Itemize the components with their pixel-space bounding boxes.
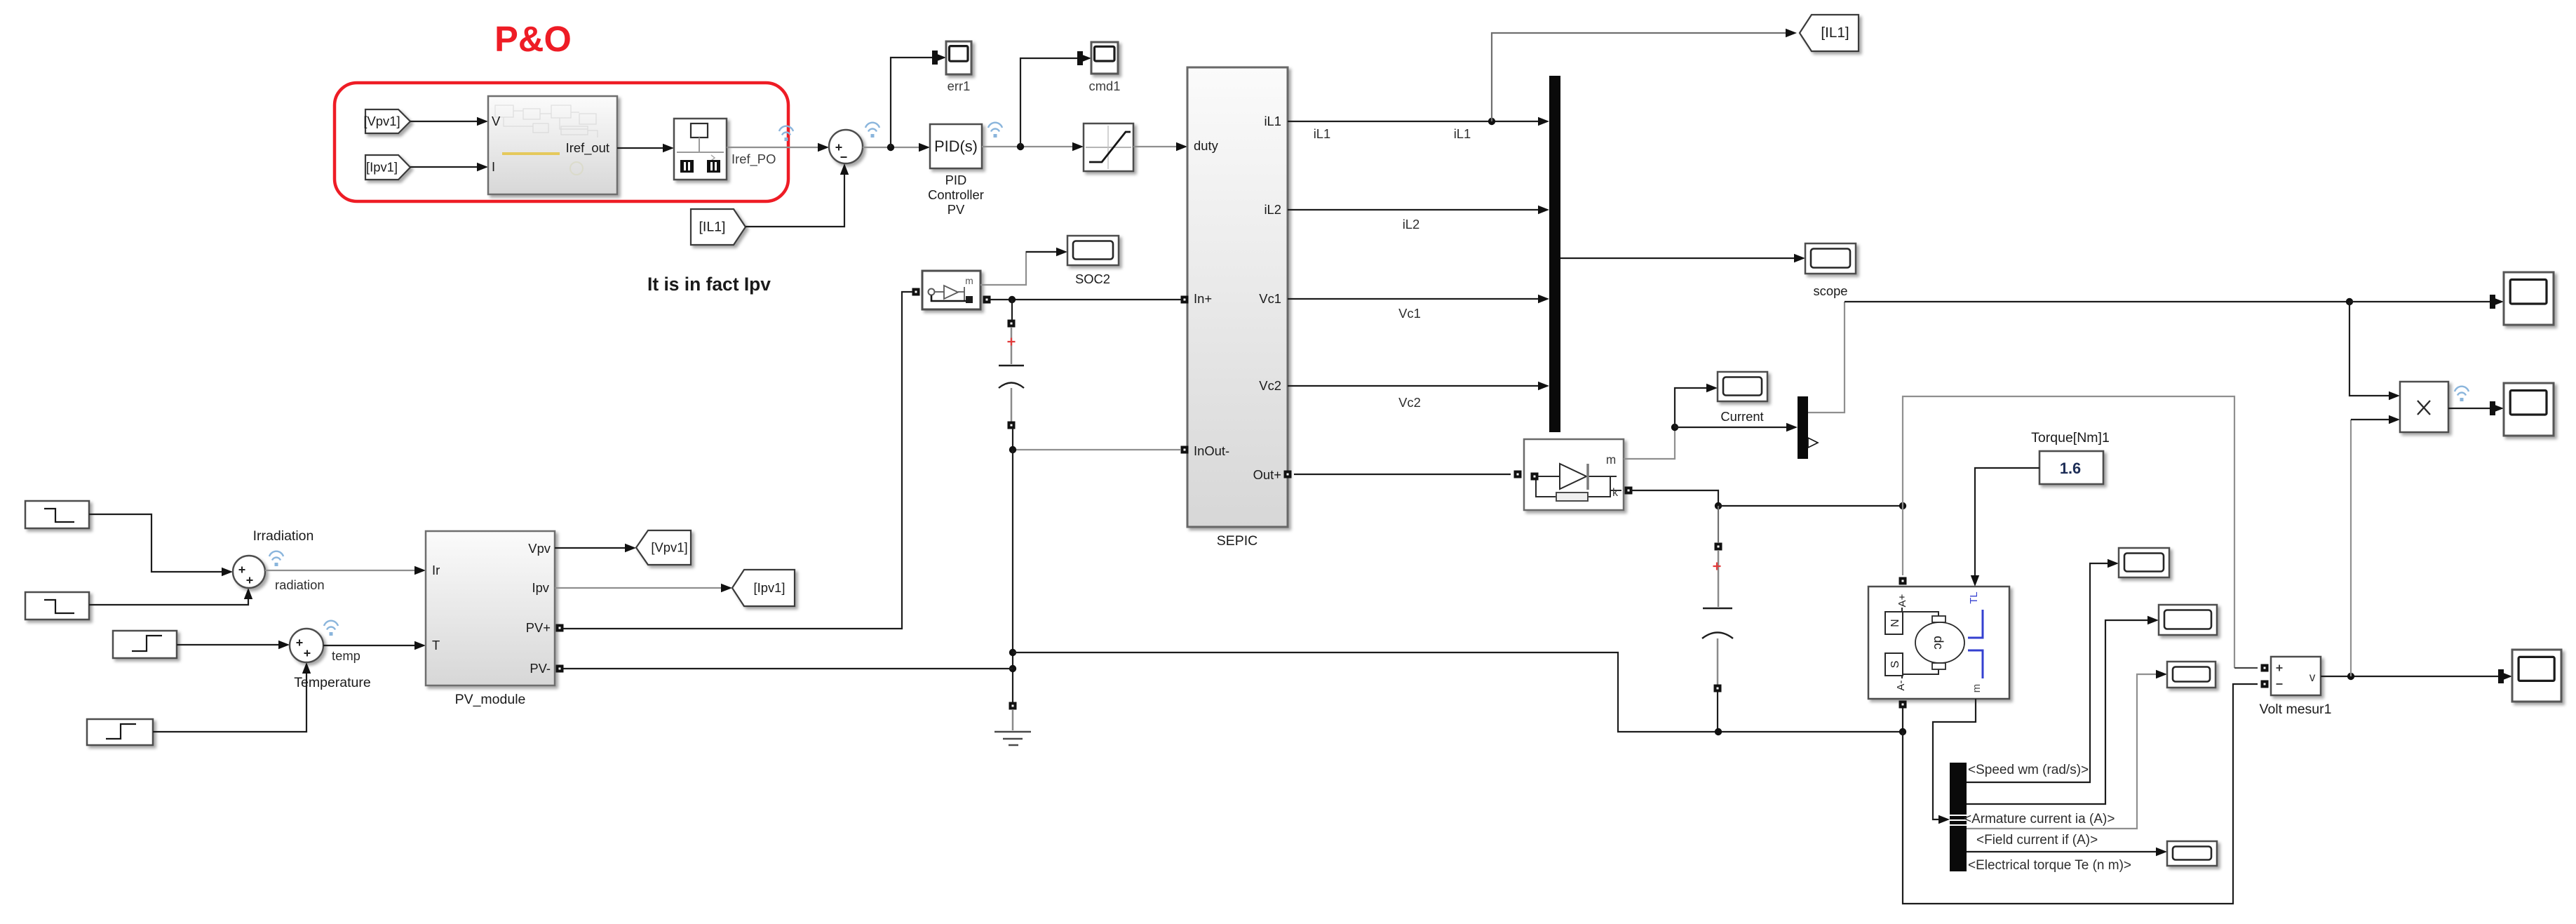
text label SEPIC: [1217, 533, 1258, 549]
svg-text:T: T: [432, 638, 440, 652]
block current measurement (battery meter): [922, 271, 980, 309]
junction PV- joins negative rail: [1009, 665, 1016, 672]
block DC machine: [1868, 587, 2009, 699]
text bus label Speed: [1968, 763, 2089, 777]
junction current to scope and product: [2346, 298, 2353, 305]
svg-text:[Vpv1]: [Vpv1]: [363, 114, 400, 128]
wire PV+ to measurement block: [563, 292, 912, 629]
svg-text:Iref_PO: Iref_PO: [731, 152, 776, 167]
text label SOC2: [1075, 272, 1110, 286]
svg-text:Controller: Controller: [928, 187, 984, 202]
wire constant to TL input: [1971, 468, 2039, 587]
wire step4 to temp sum: [153, 662, 311, 732]
svg-text:[IL1]: [IL1]: [1821, 25, 1849, 41]
svg-text:[IL1]: [IL1]: [699, 220, 726, 235]
wire k node to DC machine A+ node: [1718, 505, 1903, 507]
step block Step (irradiation 2): [25, 592, 89, 620]
wire voltage to product input 2: [2351, 415, 2400, 676]
svg-text:P&O: P&O: [494, 19, 572, 59]
svg-text:TL: TL: [1969, 591, 1980, 603]
wire saturation to SEPIC duty: [1133, 142, 1187, 151]
svg-text:err1: err1: [948, 79, 971, 93]
svg-text:cmd1: cmd1: [1089, 79, 1121, 93]
text label Irradiation: [253, 528, 314, 544]
wire bus Speed to display1: [1967, 559, 2119, 782]
wire node to Current display: [1675, 384, 1718, 427]
block diode with snubber: [1524, 439, 1624, 510]
wire MPPT Iref_out to Iref_PO block: [617, 144, 674, 152]
svg-text:Vpv: Vpv: [528, 541, 551, 556]
svg-text:duty: duty: [1194, 138, 1219, 153]
svg-text:Ir: Ir: [432, 563, 440, 577]
svg-text:v: v: [2309, 670, 2316, 684]
text label Current: [1720, 409, 1763, 424]
product block x: [2400, 382, 2448, 432]
sum block temp: [290, 629, 323, 662]
svg-text:<Electrical torque Te (n m)>: <Electrical torque Te (n m)>: [1968, 858, 2131, 873]
ground symbol: [994, 709, 1031, 745]
scope cmd1: [1089, 42, 1121, 93]
text bus label Armature current: [1964, 812, 2115, 826]
port A- of DC machine: [1899, 701, 1907, 709]
svg-text:iL1: iL1: [1264, 114, 1281, 128]
junction DC machine A+ node: [1899, 502, 1906, 509]
port PV- of PV_module: [556, 665, 564, 673]
svg-text:Out+: Out+: [1253, 467, 1281, 482]
svg-text:In+: In+: [1194, 291, 1212, 306]
signal logging badge on radiation: [269, 551, 283, 566]
polarity mark + of C2: [1713, 563, 1721, 570]
port Out+ of SEPIC: [1284, 471, 1292, 478]
svg-text:V: V: [492, 114, 501, 128]
wire negative rail vertical: [1012, 450, 1013, 702]
svg-text:1.6: 1.6: [2060, 460, 2081, 477]
wire SEPIC iL1 to mux: [1288, 117, 1549, 126]
scope block top right: [2504, 272, 2554, 325]
wire A+ node to machine: [1902, 506, 1903, 575]
svg-text:It is in fact Ipv: It is in fact Ipv: [647, 274, 771, 295]
svg-text:Current: Current: [1720, 409, 1763, 424]
text label Iref_PO: [731, 152, 776, 167]
signal logging badge on sum1 output: [865, 123, 879, 138]
junction on sum1 output: [887, 144, 894, 151]
block saturation: [1084, 123, 1133, 171]
text label radiation: [275, 577, 325, 592]
wire junction to cmd1 scope: [1020, 51, 1091, 147]
bus selector block: [1950, 763, 1967, 871]
svg-text:iL1: iL1: [1314, 126, 1331, 141]
wire PID to saturation: [982, 142, 1084, 151]
capacitor C1 (input cap): [999, 320, 1024, 429]
wire Vpv to goto [Vpv1]: [555, 544, 636, 552]
text wire label Vc1: [1398, 306, 1421, 321]
svg-text:I: I: [492, 159, 495, 174]
display Current: [1718, 372, 1767, 401]
wire machine m to bus selector: [1933, 699, 1976, 824]
port inner anode: [1531, 473, 1539, 481]
svg-text:Torque[Nm]1: Torque[Nm]1: [2031, 430, 2110, 446]
wire bus Field to display3: [1967, 670, 2167, 829]
junction on In+ wire: [1009, 296, 1016, 303]
wire temp sum to PV T: [323, 641, 426, 650]
wire Iref_PO to sum1: [727, 143, 829, 152]
port In+ of SEPIC: [1181, 296, 1189, 304]
wire bottom rail: [1013, 652, 1903, 732]
from tag [IL1]: [691, 209, 746, 245]
wire SEPIC iL2 to mux: [1288, 206, 1549, 214]
display block scope: [1805, 243, 1856, 274]
svg-text:temp: temp: [332, 648, 360, 663]
svg-text:dc: dc: [1931, 636, 1946, 649]
wire junction to err1 scope: [891, 51, 946, 147]
svg-text:PV-: PV-: [530, 661, 551, 676]
signal logging badge on PID output: [988, 123, 1002, 138]
text label temp: [332, 648, 360, 663]
junction on PID output: [1017, 143, 1024, 150]
junction DC machine A- node: [1899, 728, 1906, 735]
step block Step (temperature 2): [87, 719, 153, 745]
svg-text:<Field current if (A)>: <Field current if (A)>: [1976, 833, 2098, 848]
svg-text:m: m: [1971, 684, 1983, 692]
scope block bottom right: [2512, 650, 2561, 702]
wire junction down to product input 1: [2349, 302, 2400, 400]
port minus of Volt mesur1: [2261, 681, 2269, 688]
wire SEPIC Vc2 to mux: [1288, 382, 1549, 390]
svg-text:Vc2: Vc2: [1398, 395, 1421, 410]
junction C2 on bottom rail: [1715, 728, 1722, 735]
mux block small (current): [1798, 396, 1818, 459]
sum block (Iref - IL1): [829, 130, 863, 163]
subsystem PV_module block: [426, 531, 555, 685]
svg-text:iL2: iL2: [1403, 217, 1420, 232]
junction negative rail to bottom rail: [1009, 649, 1016, 656]
wire mux2 output to power line: [1808, 302, 1845, 413]
wire voltmeter minus path: [1903, 684, 2258, 904]
wire InOut- node to SEPIC: [1009, 446, 1181, 453]
wire Ipv to goto [Ipv1]: [555, 584, 732, 592]
scope err1: [946, 41, 971, 93]
wire product to scope5: [2448, 401, 2504, 415]
display block speed: [2119, 548, 2169, 577]
svg-text:Iref_out: Iref_out: [566, 140, 609, 156]
subsystem SEPIC block: [1187, 67, 1288, 527]
text label scope: [1813, 283, 1847, 298]
svg-text:iL1: iL1: [1454, 126, 1471, 141]
svg-text:A-: A-: [1896, 681, 1907, 691]
wire step3 to temp sum: [177, 641, 290, 649]
wire SEPIC Vc1 to mux: [1288, 295, 1549, 303]
svg-text:Volt mesur1: Volt mesur1: [2260, 702, 2332, 717]
wire diode m to current node: [1624, 427, 1675, 459]
text bus label Electrical torque: [1968, 858, 2131, 873]
svg-text:m: m: [965, 276, 973, 286]
svg-text:S: S: [1889, 661, 1901, 669]
wire bus Torque to display4: [1967, 848, 2167, 856]
svg-text:<Armature current ia (A)>: <Armature current ia (A)>: [1964, 812, 2115, 826]
wire bus Armature to display2: [1967, 616, 2159, 804]
svg-text:[Ipv1]: [Ipv1]: [366, 160, 398, 175]
display block armature current: [2159, 605, 2217, 635]
sum block radiation: [233, 556, 265, 588]
text label Volt mesur1: [2260, 702, 2332, 717]
goto tag [Vpv1]: [636, 530, 691, 565]
svg-text:scope: scope: [1813, 283, 1847, 298]
block Volt mesur1 (voltage measurement): [2271, 657, 2321, 695]
wire step2 to radiation sum: [89, 588, 252, 605]
svg-text:SEPIC: SEPIC: [1217, 533, 1258, 549]
signal logging badge on Iref_PO: [779, 126, 793, 141]
wire voltmeter plus final: [2234, 667, 2258, 669]
port InOut- of SEPIC: [1181, 446, 1189, 454]
text label Torque[Nm]1: [2031, 430, 2110, 446]
port anode of diode: [1514, 471, 1522, 478]
step block Step (temperature 1): [113, 631, 177, 658]
wire SEPIC Out+ to diode: [1294, 474, 1511, 475]
port plus of Volt mesur1: [2261, 664, 2269, 672]
svg-text:PID(s): PID(s): [934, 138, 978, 155]
wire iL1 junction to goto [IL1]: [1492, 29, 1797, 121]
junction current measurement node: [1671, 424, 1678, 431]
svg-text:PV: PV: [948, 202, 965, 217]
svg-text:PID: PID: [945, 173, 967, 187]
svg-text:SOC2: SOC2: [1075, 272, 1110, 286]
goto tag [IL1]: [1800, 15, 1859, 51]
wire radiation sum to PV Ir: [265, 566, 426, 575]
signal logging badge on product: [2455, 387, 2469, 401]
wire C1 bottom to InOut- node: [1012, 429, 1013, 450]
display SOC2: [1067, 236, 1119, 265]
wire A- to rail junction: [1902, 708, 1903, 732]
wire [Vpv1] to MPPT V input: [410, 117, 488, 126]
wire PV- to negative rail: [563, 668, 1013, 669]
wire diode k to capacitor node: [1631, 490, 1718, 502]
wire voltmeter plus path: [1903, 396, 2234, 668]
svg-text:k: k: [1612, 486, 1619, 499]
wire [IL1] to sum1 minus input: [746, 163, 849, 227]
display block electrical torque: [2167, 841, 2217, 866]
svg-text:N: N: [1889, 619, 1901, 627]
text wire label iL2: [1403, 217, 1420, 232]
wire current signal long horizontal: [1845, 301, 2346, 302]
svg-text:iL2: iL2: [1264, 202, 1281, 217]
wire step1 to radiation sum: [89, 514, 233, 576]
svg-text:PV+: PV+: [526, 620, 551, 635]
wire Volt mesur1 output: [2321, 669, 2512, 683]
scope block mid right: [2504, 383, 2554, 436]
constant block Torque 1.6: [2039, 451, 2103, 484]
block PID Controller PV: [928, 124, 984, 217]
text annotation It is in fact Ipv: [647, 274, 771, 295]
P&O group red rounded boundary box: [335, 83, 788, 201]
text label P&O (red title): [494, 19, 572, 59]
text wire label iL1 right: [1454, 126, 1471, 141]
svg-text:m: m: [1606, 453, 1616, 467]
svg-text:PV_module: PV_module: [455, 692, 526, 707]
port A+ of DC machine: [1899, 577, 1907, 585]
capacitor C2 (output cap): [1702, 506, 1733, 692]
wire mux to scope: [1560, 254, 1805, 262]
ground port: [1009, 702, 1017, 710]
wire node to mux2: [1675, 423, 1798, 431]
polarity mark + of C1: [1008, 338, 1016, 346]
mux block (4 inputs): [1549, 76, 1560, 432]
svg-text:<Speed wm (rad/s)>: <Speed wm (rad/s)>: [1968, 763, 2089, 777]
wire measurement to SEPIC In+: [990, 299, 1181, 300]
svg-text:Temperature: Temperature: [294, 675, 370, 690]
svg-text:Vc1: Vc1: [1259, 291, 1281, 306]
svg-text:[Ipv1]: [Ipv1]: [754, 580, 785, 595]
from tag [Ipv1]: [365, 155, 410, 180]
block Iref_PO (rate limiter icon): [674, 119, 727, 180]
text label Temperature: [294, 675, 370, 690]
svg-text:[Vpv1]: [Vpv1]: [651, 540, 687, 555]
wire measurement m to SOC2: [980, 248, 1067, 285]
wire junction to scope4 (top right): [2349, 295, 2504, 309]
signal logging badge on temp: [324, 621, 338, 636]
subsystem MPPT P&O block: [488, 96, 617, 194]
svg-text:Vc2: Vc2: [1259, 378, 1281, 393]
display block field current: [2167, 662, 2216, 688]
svg-text:Irradiation: Irradiation: [253, 528, 314, 544]
text label PV_module: [455, 692, 526, 707]
svg-text:Ipv: Ipv: [532, 580, 549, 595]
text wire label Vc2: [1398, 395, 1421, 410]
goto tag [Ipv1]: [732, 570, 795, 606]
wire C1 top to In+ wire: [1011, 300, 1013, 320]
port PV+ of PV_module: [556, 624, 564, 632]
wire [Ipv1] to MPPT I input: [410, 163, 488, 171]
junction capacitor C2 top node: [1715, 502, 1722, 509]
port k of diode: [1625, 487, 1633, 495]
wire C2 bottom to rail: [1717, 692, 1718, 732]
junction voltage signal: [2347, 673, 2354, 680]
text wire label iL1 left: [1314, 126, 1331, 141]
wire sum1 to PID controller: [863, 143, 930, 152]
svg-text:Vc1: Vc1: [1398, 306, 1421, 321]
junction on iL1 wire: [1488, 118, 1495, 125]
text bus label Field current: [1976, 833, 2098, 848]
svg-text:radiation: radiation: [275, 577, 325, 592]
step block Step (irradiation 1): [25, 501, 89, 528]
port output of current measurement: [983, 296, 991, 304]
svg-text:A+: A+: [1897, 594, 1908, 608]
from tag [Vpv1]: [363, 109, 410, 133]
svg-text:InOut-: InOut-: [1194, 443, 1229, 458]
port input of current measurement: [912, 288, 920, 296]
